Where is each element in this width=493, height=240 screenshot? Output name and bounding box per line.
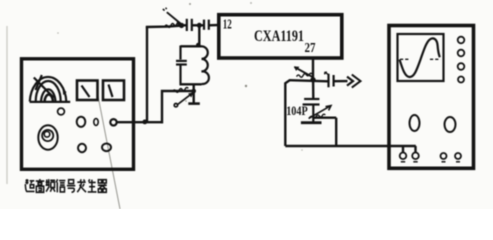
LC tank bottom bar [180, 83, 202, 85]
scope terminal 4 [455, 153, 461, 162]
svg-text:CXA1191: CXA1191 [254, 28, 304, 45]
svg-text:12: 12 [223, 16, 232, 31]
node LC bottom [191, 89, 196, 94]
char chao [25, 179, 34, 191]
scope side knobs column [458, 37, 465, 83]
pin 12 label [223, 16, 232, 31]
generator label (hand-drawn CJK strokes) [25, 179, 106, 192]
capacitor C-tank [176, 46, 187, 85]
generator spiral knob [38, 125, 57, 149]
scope terminal 3 [441, 153, 447, 162]
node at riser junction [142, 120, 147, 125]
capacitor C2 [199, 20, 218, 30]
wire riser to LC bottom [162, 91, 195, 123]
node B [197, 23, 202, 28]
char sheng [88, 179, 97, 192]
sine wave trace [400, 38, 440, 77]
wire from node B down to LC tank [198, 25, 200, 45]
tuning arrow A1 [163, 8, 181, 28]
wire corner down [335, 118, 337, 146]
svg-text:104P: 104P [286, 103, 308, 118]
oscilloscope box [389, 26, 474, 169]
ground [188, 102, 200, 105]
screen midline dashes [400, 58, 441, 60]
wire terminal drops [403, 146, 416, 153]
stub to ground [192, 84, 194, 103]
node A [179, 23, 184, 28]
wire from generator output [117, 121, 163, 123]
scan speck [57, 2, 303, 151]
wire bottom rail to oscilloscope [285, 145, 416, 147]
wire tap to scope [313, 116, 336, 118]
generator meter M2 [103, 81, 124, 101]
node pin27 [310, 77, 315, 82]
scope input terminal 1 [400, 153, 407, 162]
wire top rail [146, 26, 182, 27]
pin 27 label [305, 40, 316, 55]
scope input terminal 2 [412, 153, 419, 162]
wire pin27 rail [289, 80, 328, 81]
svg-text:27: 27 [305, 40, 316, 55]
node LC top [196, 43, 201, 48]
IC name label [254, 28, 304, 45]
tuning arrow A2 [294, 66, 313, 77]
pencil annotation line [98, 96, 120, 209]
signal generator box [22, 59, 134, 170]
scan artifact left edge line [6, 26, 8, 184]
output arrow symbol [347, 75, 361, 88]
capacitor C4 104P [303, 99, 320, 123]
scope knob 1 [410, 115, 420, 131]
wire pin 27 down [312, 57, 314, 81]
LC tank top bar [181, 45, 202, 47]
wire left branch elbow [285, 80, 289, 146]
IC U1 CXA1191 box [219, 15, 342, 58]
char xin [56, 179, 65, 192]
scope knob 2 [445, 117, 456, 132]
generator knob [102, 144, 111, 152]
wire node to 104P [312, 80, 315, 99]
generator small knob [58, 108, 65, 115]
104P label [286, 103, 308, 118]
char gao [36, 179, 45, 192]
wire riser to top rail [146, 27, 148, 123]
capacitor C3 coupling [325, 72, 348, 87]
ground bar [301, 121, 322, 124]
char qi [98, 180, 107, 193]
oscilloscope screen [398, 34, 444, 81]
capacitor C1 [184, 19, 198, 31]
generator small jack [94, 119, 98, 126]
tuning arrow A3 [309, 106, 331, 119]
char hao [67, 180, 75, 193]
generator knob [77, 117, 86, 127]
char pin [46, 179, 56, 192]
char fa [77, 179, 86, 192]
inductor L1 [202, 46, 209, 84]
generator knob [78, 144, 86, 152]
generator output terminal [110, 119, 116, 125]
generator tuning dial [30, 75, 71, 102]
generator meter M1 [77, 81, 98, 101]
tuning arrow A4 [173, 87, 194, 106]
